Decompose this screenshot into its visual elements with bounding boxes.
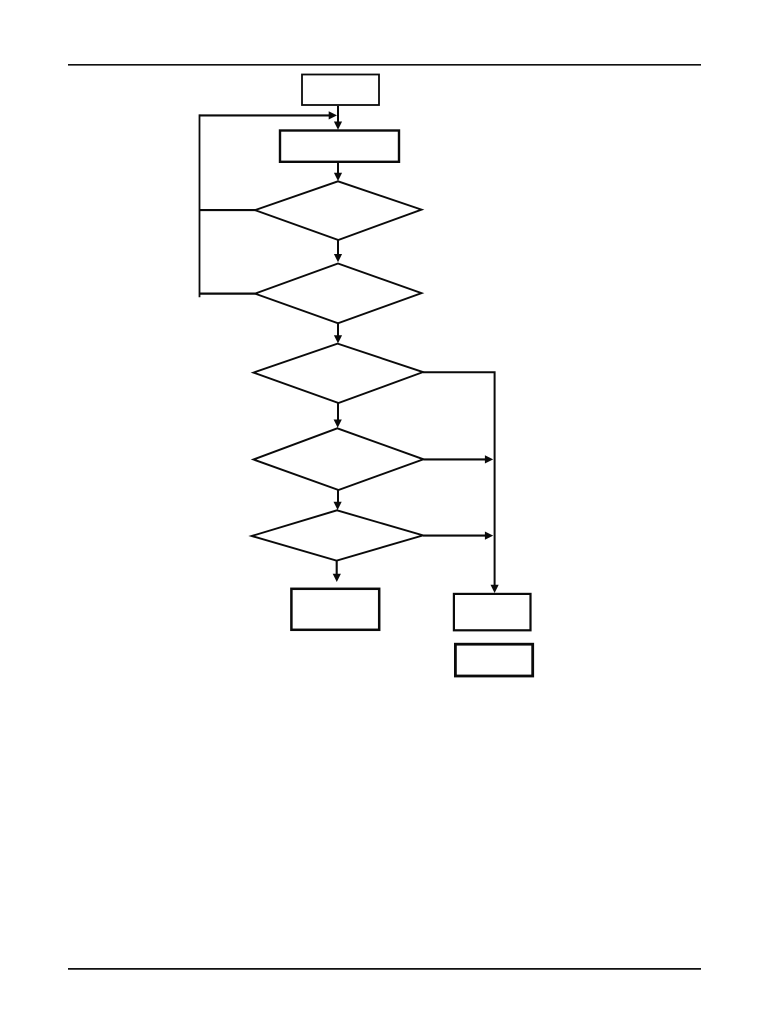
wire: arrow from D4 right vertex to right rail <box>424 455 494 463</box>
wire: arrow from D5 down to box C <box>333 561 341 582</box>
decision diamond D2 <box>255 264 422 324</box>
wire: left feedback rail (vertical) <box>199 114 201 297</box>
decision diamond D3 <box>254 344 424 403</box>
wire: arrow from D5 right vertex to right rail <box>423 532 493 540</box>
process box C (bottom left) <box>291 589 379 630</box>
wire: arrow from D1 down to decision D2 <box>334 240 342 262</box>
wire: connector from D3 right vertex across and down to box D with arrowhead <box>423 372 499 593</box>
wire: arrow from D4 down to decision D5 <box>334 490 342 510</box>
wire: arrow from D3 down to decision D4 <box>334 403 342 428</box>
wire: arrow from D2 down to decision D3 <box>334 323 342 343</box>
wire: stub from left rail to diamond D2 left vertex <box>200 293 256 295</box>
wire: feedback horizontal line with right arrowhead into node above box B <box>200 111 338 119</box>
wire: stub from left rail to diamond D1 left vertex <box>200 209 256 211</box>
decision diamond D1 <box>255 181 422 240</box>
process box B <box>280 131 399 162</box>
process box E (bottom right lower) <box>455 644 532 676</box>
decision diamond D4 <box>254 428 424 490</box>
process box D (bottom right upper) <box>454 594 531 630</box>
wire: arrow from box B down to decision D1 <box>334 163 342 182</box>
process box A (top start box) <box>302 75 379 106</box>
footer rule <box>68 968 701 970</box>
wire: arrow from box A down to box B <box>334 106 342 130</box>
header rule <box>68 64 701 66</box>
decision diamond D5 <box>252 510 423 560</box>
